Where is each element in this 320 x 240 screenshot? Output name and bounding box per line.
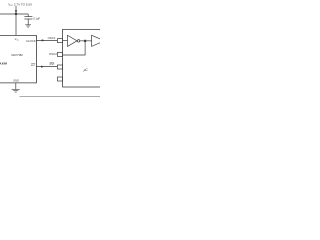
pin box unused (57, 77, 62, 81)
pin box OSC1 (57, 39, 62, 43)
svg-text:MAX7382: MAX7382 (11, 53, 23, 57)
pin label RST (RESET out) (31, 64, 36, 67)
pin box RST (57, 65, 62, 69)
wire RESET to RST (36, 66, 57, 68)
arrow clock (42, 39, 45, 41)
wire VCC rail (0, 13, 28, 15)
wire OSC1 to inverter (63, 40, 68, 42)
ground (cap) (25, 25, 31, 27)
wire inverter1 to inverter2 (80, 40, 92, 42)
capacitor C1 0.1uF (24, 14, 32, 25)
IC U2 microcontroller box (63, 29, 102, 87)
svg-text:0.1µF: 0.1µF (33, 17, 40, 21)
wire CLOCK to OSC1 (36, 39, 57, 41)
inverter 2 (92, 35, 105, 46)
node dot (84, 40, 87, 43)
svg-text:CLOCK: CLOCK (26, 39, 36, 43)
svg-text:µC: µC (84, 68, 89, 72)
rule bottom (20, 96, 102, 98)
wire VCC pointer (15, 6, 17, 14)
arrow reset (41, 66, 44, 68)
svg-text:RST: RST (31, 65, 36, 67)
svg-text:OSC1: OSC1 (48, 36, 56, 40)
svg-text:RST: RST (50, 63, 55, 66)
pin box OSC2 (57, 52, 62, 56)
svg-text:VCC: VCC (15, 37, 20, 42)
svg-text:OSC2: OSC2 (49, 52, 57, 56)
wire feedback to OSC2 (63, 41, 86, 55)
IC U1 MAX7382 box (0, 35, 36, 83)
svg-text:GND: GND (13, 80, 19, 83)
node label RST (50, 63, 55, 66)
svg-text:VCC 2.7V TO 5.5V: VCC 2.7V TO 5.5V (8, 2, 32, 7)
svg-text:MAXIM: MAXIM (0, 61, 7, 65)
arrow down to rail (15, 10, 17, 13)
wire VCC to IC (15, 14, 17, 35)
inverter 1 (68, 35, 80, 46)
node junction dot (15, 13, 17, 15)
ground (IC GND pin) (12, 83, 20, 92)
